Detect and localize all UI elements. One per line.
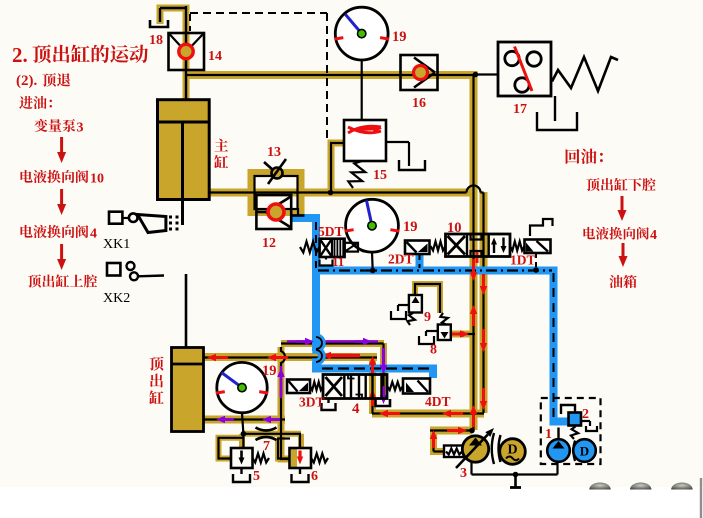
svg-text:3: 3 [77, 121, 84, 136]
wire branch to valve 6 [278, 439, 290, 459]
junction node at top main / riser [473, 72, 479, 78]
scrollbar right edge [700, 478, 702, 518]
svg-text:3: 3 [460, 466, 467, 481]
pressure gauge 19 middle [371, 252, 374, 271]
directional valve 4 [323, 375, 387, 399]
wire plug stub below valve 13 ring [295, 208, 302, 215]
solenoid 3DT [310, 382, 323, 390]
svg-text:19: 19 [403, 219, 418, 235]
tank under 17 [554, 96, 556, 121]
plug under valve 13 ring [297, 208, 299, 216]
purple arrow right on y343 pipe [296, 340, 305, 343]
svg-text:16: 16 [412, 96, 426, 111]
wire gauge loop riser x281 [281, 347, 290, 459]
wire left supply riser x473 [470, 71, 478, 430]
svg-text:7: 7 [263, 439, 270, 454]
solenoid 1DT [510, 242, 525, 251]
wire mid main centerline with hop over riser [208, 191, 467, 193]
wire valve 9-8 connector centerline [415, 284, 440, 313]
breather cap bracket [150, 20, 168, 27]
svg-text:1: 1 [545, 427, 552, 442]
red arrow left on y357 pipe [322, 354, 360, 357]
label valve4 path [20, 225, 32, 238]
wire branch to valve 15 [331, 143, 344, 196]
wire valve 8 connector centerline [450, 333, 475, 335]
dashed box pumps 1-2 [541, 398, 601, 464]
wire branch to valve 5 [219, 438, 244, 459]
label cyl upper [28, 274, 41, 287]
purple arrow down x383 to tank [382, 386, 385, 395]
label valve10 path [20, 170, 32, 183]
svg-text:5: 5 [253, 469, 260, 484]
label cyl lower [586, 178, 599, 191]
blue return pipe from valve 12 down x316 [291, 218, 316, 351]
svg-text:D: D [507, 443, 517, 458]
limit switch XK1 [109, 212, 122, 224]
purple flow on x281 riser [280, 366, 283, 398]
pressure gauge 19 bottom [242, 413, 243, 434]
relief valve 9 [409, 295, 422, 313]
solenoid 4DT [387, 382, 403, 390]
wire ejector top pipe centerline [203, 356, 377, 358]
wire pump 3 outlet centerline [430, 429, 472, 431]
label tank [609, 275, 622, 288]
wire breather elbow centerline [185, 6, 187, 100]
wire main top pipe y75 [186, 71, 476, 79]
svg-text:14: 14 [208, 49, 222, 64]
svg-text:4DT: 4DT [425, 394, 451, 409]
svg-text:19: 19 [392, 29, 407, 45]
svg-text:4: 4 [90, 227, 97, 242]
coupling pump1-motor [573, 441, 575, 462]
label hui you [566, 149, 580, 164]
red arrow right 1 [621, 196, 624, 210]
electric motor D gold [500, 439, 526, 465]
relief valve 2 [561, 405, 575, 414]
wire purple pipe centerline [281, 342, 384, 344]
svg-text:12: 12 [262, 236, 276, 251]
wire to pressure switch 17 [476, 73, 498, 75]
svg-text:4: 4 [650, 228, 657, 243]
wire top main centerline [186, 74, 476, 76]
wire ejector top port pipe y357 [203, 353, 377, 361]
blue stub under 2DT solenoid [416, 254, 424, 270]
wire valve 5 branch centerline [219, 438, 244, 459]
wire ejector bottom pipe centerline [203, 418, 285, 420]
blue pipe y368 to valve 4 zone [316, 362, 433, 378]
electric motor D blue [573, 439, 596, 462]
ejector cylinder [172, 348, 204, 432]
svg-text:11: 11 [332, 254, 344, 269]
wire pump suction to tank [470, 462, 472, 475]
check valve 16 [401, 55, 438, 90]
main cylinder [158, 100, 210, 200]
wire valve 6 branch centerline [278, 439, 290, 459]
svg-text:2DT: 2DT [388, 252, 414, 267]
directional valve 10 [446, 234, 511, 257]
red arrow 3 [60, 244, 63, 259]
blue branch y270 down x553 to pump 1 [316, 271, 569, 422]
spring of 17 [552, 57, 618, 91]
red arrow at valve 8 connector [452, 333, 460, 336]
purple arrow down x383 into valve 4 [382, 348, 385, 365]
wire red riser x372 through valve 4 [369, 357, 376, 414]
label valve4 return [583, 227, 595, 239]
wire breather elbow above valve 14 [160, 8, 186, 100]
svg-text:6: 6 [311, 469, 318, 484]
junction node at valve 15 branch [328, 190, 334, 196]
svg-text:1DT: 1DT [510, 253, 536, 268]
tank brackets under valve 4 [327, 399, 329, 404]
red stub in valve 10 middle [476, 251, 479, 263]
svg-text:9: 9 [424, 310, 431, 325]
wire valve 9 to valve 8 connector [415, 284, 440, 313]
wire x372 riser centerline [371, 357, 373, 414]
svg-text:XK2: XK2 [103, 291, 130, 306]
pilot dash overlays on blue [315, 222, 317, 268]
solenoid 2DT [431, 242, 446, 251]
solenoid valve 11 5DT [300, 242, 320, 253]
wire purple drop x383 through valve 4 [380, 343, 387, 399]
pilot dashed stub under 1DT [535, 253, 537, 269]
svg-text:D: D [580, 444, 589, 459]
svg-text:3DT: 3DT [299, 395, 325, 410]
throttle 7 [256, 428, 277, 431]
junction node at valve 8 connector [459, 331, 465, 337]
svg-text:19: 19 [262, 363, 277, 379]
wire left riser centerline [472, 75, 474, 430]
red arrows down right riser [482, 274, 485, 286]
svg-text:17: 17 [513, 102, 527, 117]
label main cylinder [214, 139, 228, 152]
wire bottom pipe y413 [372, 410, 484, 418]
valve 13 ring inner outline [255, 176, 298, 209]
pilot check valve 13 [272, 168, 283, 179]
red arrows at pump 3 outlet [432, 439, 435, 448]
variable pump 3 [444, 446, 464, 458]
wire valve 15 branch centerline [330, 143, 332, 192]
wire throttle 7 line [243, 431, 301, 437]
svg-text:13: 13 [267, 145, 281, 160]
check valve 14 [169, 33, 205, 70]
pilot check valve 12 [256, 195, 291, 229]
wire valve 8 connector [450, 331, 475, 338]
wire purple return pipe y343 [281, 340, 384, 347]
wire x281 riser centerline with hop over red pipe [281, 347, 290, 459]
purple arrows on ejector bottom pipe [225, 418, 234, 421]
svg-text:18: 18 [149, 33, 163, 48]
svg-text:10: 10 [90, 172, 104, 187]
svg-text:2: 2 [582, 407, 589, 422]
pilot drain hook above 1DT [530, 219, 553, 236]
red arrow 1 [60, 137, 63, 152]
wire ejector bottom port pipe y419 [203, 416, 285, 424]
label jin you [19, 96, 33, 109]
detent dots [169, 216, 172, 219]
blue hop bridges over gold pipes [316, 334, 322, 366]
svg-text:2.: 2. [12, 43, 28, 67]
svg-text:8: 8 [430, 343, 437, 358]
svg-text:10: 10 [447, 220, 462, 236]
wire XK rod [185, 274, 188, 364]
pressure switch 17 [498, 42, 551, 96]
wire main mid pipe y192 [208, 189, 473, 197]
relief valve 8 [438, 325, 451, 341]
label pump3 [34, 119, 47, 132]
pilot dashed line top [190, 12, 327, 14]
junction node at pump 3 outlet [469, 428, 475, 434]
wire pump 3 outlet [430, 427, 472, 435]
wire throttle 7 line centerline [243, 433, 301, 435]
svg-text:15: 15 [373, 168, 387, 183]
coupling pump3-motor [492, 433, 494, 464]
wire right riser centerline [482, 193, 484, 414]
svg-text:4: 4 [352, 401, 360, 417]
red arrow 2 [60, 189, 63, 204]
label ejector cylinder [149, 356, 163, 370]
wire gold ring around valve 13 [251, 173, 301, 213]
red arrow right 2 [622, 243, 625, 256]
relief valve 6 [290, 448, 312, 468]
wire bottom pipe centerline [372, 412, 484, 414]
relief valve 5 [231, 448, 253, 468]
red arrows left on bottom pipe [388, 412, 400, 415]
red arrows into ejector top port [216, 356, 228, 359]
pump 1 blue [557, 428, 559, 441]
svg-text:5DT: 5DT [318, 224, 344, 239]
svg-text:(2).: (2). [16, 73, 37, 89]
red arrows up x372 riser [371, 365, 374, 377]
svg-text:XK1: XK1 [103, 237, 130, 252]
red arrows on left riser [472, 259, 475, 272]
pilot relief valve 15 [344, 120, 386, 161]
limit switch XK2 [107, 263, 120, 276]
wire right riser x483 to valve 10 [480, 192, 488, 413]
pressure gauge 19 top [361, 60, 363, 120]
purple flow line on y343 pipe [287, 340, 309, 343]
